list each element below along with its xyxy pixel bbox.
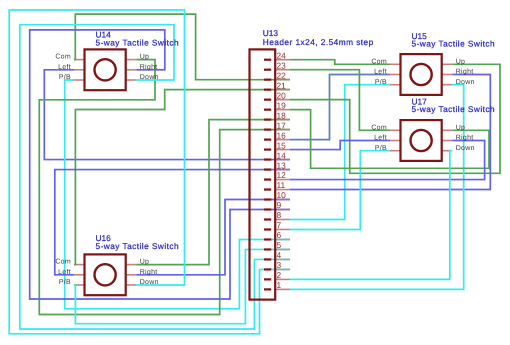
svg-text:16: 16 [277,130,287,140]
svg-text:Up: Up [456,124,466,131]
svg-text:19: 19 [277,100,287,110]
svg-text:5: 5 [277,240,282,250]
svg-text:3: 3 [277,260,282,270]
svg-text:Down: Down [456,79,475,86]
svg-text:2: 2 [277,270,282,280]
svg-text:13: 13 [277,160,287,170]
svg-text:Up: Up [456,58,466,65]
svg-text:9: 9 [277,200,282,210]
svg-text:P/B: P/B [375,144,387,152]
svg-text:Left: Left [58,63,71,71]
svg-text:Right: Right [140,268,158,276]
svg-text:Left: Left [374,134,387,142]
svg-text:Com: Com [55,259,71,266]
svg-text:Header 1x24, 2.54mm step: Header 1x24, 2.54mm step [263,37,374,47]
svg-text:22: 22 [277,70,287,80]
svg-text:Right: Right [456,68,474,76]
svg-text:5-way Tactile Switch: 5-way Tactile Switch [412,39,496,49]
svg-text:Down: Down [456,145,475,152]
svg-text:20: 20 [277,90,287,100]
svg-text:1: 1 [277,280,282,290]
svg-text:23: 23 [277,60,287,70]
svg-text:18: 18 [277,110,287,120]
svg-text:6: 6 [277,230,282,240]
svg-text:Right: Right [456,134,474,142]
svg-text:Up: Up [140,54,150,61]
svg-text:11: 11 [277,180,286,190]
svg-text:14: 14 [277,150,287,160]
svg-text:Down: Down [140,74,159,81]
svg-text:10: 10 [277,190,287,200]
svg-text:5-way Tactile Switch: 5-way Tactile Switch [412,104,496,114]
svg-text:P/B: P/B [59,278,71,286]
svg-text:21: 21 [277,80,287,90]
svg-text:Right: Right [140,63,158,71]
svg-text:5-way Tactile Switch: 5-way Tactile Switch [96,241,180,251]
svg-text:5-way Tactile Switch: 5-way Tactile Switch [96,37,180,47]
svg-text:7: 7 [277,220,282,230]
svg-text:Down: Down [140,279,159,286]
svg-text:P/B: P/B [59,73,71,81]
svg-text:15: 15 [277,140,287,150]
svg-text:Com: Com [55,54,71,61]
svg-text:Com: Com [371,58,387,65]
svg-text:17: 17 [277,120,287,130]
svg-text:P/B: P/B [375,78,387,86]
svg-text:Com: Com [371,124,387,131]
svg-text:4: 4 [277,250,282,260]
svg-text:Up: Up [140,259,150,266]
svg-text:Left: Left [374,68,387,76]
svg-text:Left: Left [58,268,71,276]
svg-text:24: 24 [277,50,287,60]
svg-text:12: 12 [277,170,287,180]
svg-text:8: 8 [277,210,282,220]
